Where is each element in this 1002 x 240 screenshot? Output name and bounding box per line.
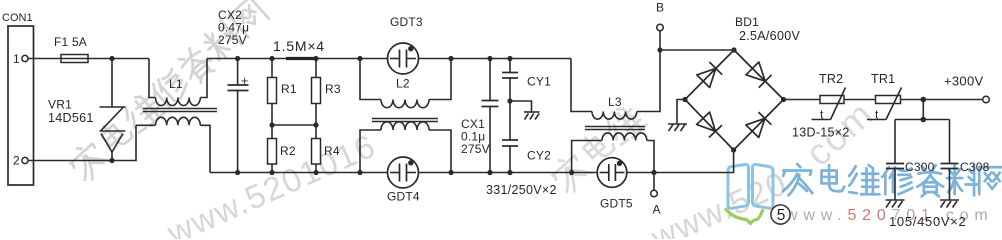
thermistor TR1 bbox=[867, 72, 902, 122]
svg-text:C300: C300 bbox=[905, 160, 935, 174]
svg-text:275V: 275V bbox=[218, 33, 247, 47]
svg-text:B: B bbox=[656, 1, 664, 15]
svg-text:+300V: +300V bbox=[944, 74, 983, 89]
node bridge top bbox=[731, 47, 736, 52]
wire TR2 to TR1 bbox=[844, 99, 876, 101]
node R3-R4 bbox=[313, 122, 318, 127]
wire bridge left to ground bbox=[677, 100, 685, 124]
thermistor TR2 bbox=[812, 72, 846, 122]
logo: circled 5 bbox=[771, 205, 790, 224]
wire top rail left bbox=[28, 58, 149, 60]
wire bridge output to TR2 bbox=[784, 99, 821, 101]
node CX2 top bbox=[235, 56, 240, 61]
node fuse-VR1 junction bbox=[109, 56, 114, 61]
capacitor C300 bbox=[886, 120, 935, 201]
wire TR1 to output bbox=[901, 99, 983, 101]
wire thick rail segment bbox=[286, 57, 314, 60]
ground bridge bbox=[668, 124, 687, 131]
node CY1 top bbox=[507, 56, 512, 61]
diode BD1 upper-left bbox=[697, 62, 722, 87]
svg-text:TR1: TR1 bbox=[871, 72, 895, 86]
node L3 bottom left bbox=[569, 170, 574, 175]
node R2 bottom bbox=[269, 170, 274, 175]
inductor L2 common-mode choke bbox=[360, 59, 451, 173]
label CX1 values bbox=[461, 117, 490, 156]
svg-text:14D561: 14D561 bbox=[48, 111, 94, 125]
svg-text:1: 1 bbox=[13, 52, 20, 66]
wire resistor middle link bbox=[272, 124, 316, 126]
node VR1 bottom junction bbox=[109, 158, 114, 163]
inductor L1 common-mode choke bbox=[136, 59, 217, 173]
wire bottom rail to bridge bbox=[654, 150, 734, 173]
capacitor C308 bbox=[941, 120, 990, 201]
node L2 bottom left bbox=[357, 170, 362, 175]
node bridge right bbox=[781, 97, 786, 102]
node CX1 bottom bbox=[487, 170, 492, 175]
svg-text:13D-15×2: 13D-15×2 bbox=[792, 126, 850, 140]
node CX1 top bbox=[487, 56, 492, 61]
logo: green underline swoosh bbox=[726, 210, 763, 224]
svg-text:F1 5A: F1 5A bbox=[54, 35, 87, 49]
varistor VR1 bbox=[100, 59, 126, 161]
svg-text:t: t bbox=[820, 108, 824, 122]
wire pin2 to L1 bbox=[28, 125, 136, 160]
node CY2 bottom bbox=[507, 170, 512, 175]
wire top rail to CY bbox=[419, 58, 572, 60]
svg-text:1.5M×4: 1.5M×4 bbox=[273, 38, 325, 54]
svg-text:R1: R1 bbox=[281, 82, 297, 96]
node A terminal bbox=[651, 173, 661, 217]
ground CY bbox=[524, 112, 540, 120]
wire output down to cap tee bbox=[922, 100, 924, 120]
logo: blue open book icon bbox=[728, 164, 773, 208]
svg-text:275V: 275V bbox=[461, 142, 490, 156]
svg-text:2.5A/600V: 2.5A/600V bbox=[739, 29, 800, 43]
fuse F1 bbox=[54, 35, 88, 63]
diode BD1 lower-right bbox=[746, 112, 771, 137]
node L2 top right bbox=[448, 56, 453, 61]
resistor R4 bbox=[312, 125, 340, 173]
gas discharge tube GDT3 bbox=[388, 15, 423, 74]
svg-text:L2: L2 bbox=[396, 77, 410, 91]
svg-text:5: 5 bbox=[777, 207, 786, 224]
svg-text:GDT4: GDT4 bbox=[387, 190, 420, 204]
svg-text:GDT5: GDT5 bbox=[600, 197, 633, 211]
resistor R2 bbox=[268, 125, 296, 173]
diode BD1 lower-left bbox=[697, 112, 722, 137]
connector CON1 bbox=[2, 12, 34, 185]
svg-text:VR1: VR1 bbox=[48, 98, 72, 112]
svg-text:CON1: CON1 bbox=[2, 12, 33, 24]
node bridge bottom bbox=[731, 147, 736, 152]
gas discharge tube GDT4 bbox=[387, 157, 420, 204]
node R1-R2 bbox=[269, 122, 274, 127]
svg-text:BD1: BD1 bbox=[735, 15, 759, 29]
resistor R1 bbox=[268, 59, 297, 126]
pin 2 bbox=[13, 154, 28, 168]
node B terminal bbox=[656, 1, 664, 51]
resistor R3 bbox=[312, 59, 341, 126]
label VR1 14D561 bbox=[48, 98, 94, 126]
wire CY mid to ground bbox=[510, 101, 532, 112]
node R4 bottom bbox=[313, 170, 318, 175]
node B junction bbox=[657, 47, 662, 52]
gas discharge tube GDT5 bbox=[597, 158, 654, 211]
terminal +300V bbox=[944, 74, 989, 103]
svg-text:105/450V×2: 105/450V×2 bbox=[889, 214, 966, 229]
watermark: gray diagonal chinese band 1 bbox=[66, 0, 269, 183]
svg-text:CY1: CY1 bbox=[527, 75, 551, 89]
wire top rail mid bbox=[207, 58, 388, 60]
watermark: gray diagonal chinese band 2 bbox=[548, 102, 647, 196]
node output junction bbox=[921, 97, 927, 103]
svg-text:R3: R3 bbox=[325, 82, 341, 96]
svg-text:+: + bbox=[241, 74, 249, 88]
wire bottom rail mid bbox=[210, 172, 389, 174]
node L2 top left bbox=[357, 56, 362, 61]
wire bottom rail to GDT5 bbox=[418, 172, 599, 174]
node R3 top bbox=[313, 56, 318, 61]
wire cap tee horizontal bbox=[895, 119, 950, 121]
ground C300 bbox=[886, 200, 905, 208]
capacitor CY1 bbox=[502, 59, 551, 102]
svg-text:TR2: TR2 bbox=[819, 72, 843, 86]
ground C308 bbox=[940, 200, 959, 208]
svg-text:R2: R2 bbox=[280, 144, 296, 158]
svg-text:GDT3: GDT3 bbox=[390, 15, 423, 29]
pin 1 bbox=[13, 52, 28, 66]
svg-text:2: 2 bbox=[13, 154, 20, 168]
bridge rectifier BD1 frame bbox=[685, 15, 800, 150]
svg-text:331/250V×2: 331/250V×2 bbox=[486, 183, 557, 197]
capacitor CX2 bbox=[228, 59, 249, 173]
svg-text:t: t bbox=[875, 108, 879, 122]
logo: blue chinese text 家电维修资料网 bbox=[783, 164, 1002, 196]
diode BD1 upper-right bbox=[746, 62, 772, 88]
node CX2 bottom bbox=[235, 170, 240, 175]
capacitor CY2 bbox=[502, 101, 551, 173]
node L3 bottom right bbox=[651, 170, 656, 175]
svg-text:L3: L3 bbox=[608, 95, 622, 109]
node bridge left bbox=[682, 97, 687, 102]
svg-text:CY2: CY2 bbox=[527, 149, 551, 163]
svg-text:L1: L1 bbox=[169, 77, 183, 91]
inductor L3 common-mode choke bbox=[571, 50, 660, 173]
svg-text:R4: R4 bbox=[324, 144, 340, 158]
node cap tee bbox=[921, 117, 927, 123]
node CY mid bbox=[507, 98, 512, 103]
svg-text:C308: C308 bbox=[960, 160, 990, 174]
capacitor CX1 bbox=[482, 59, 499, 173]
node R1 top bbox=[269, 56, 274, 61]
svg-text:A: A bbox=[653, 203, 661, 217]
label CX2 values bbox=[218, 8, 249, 47]
node L2 bottom right bbox=[448, 170, 453, 175]
wire B rail to bridge bbox=[660, 49, 734, 51]
